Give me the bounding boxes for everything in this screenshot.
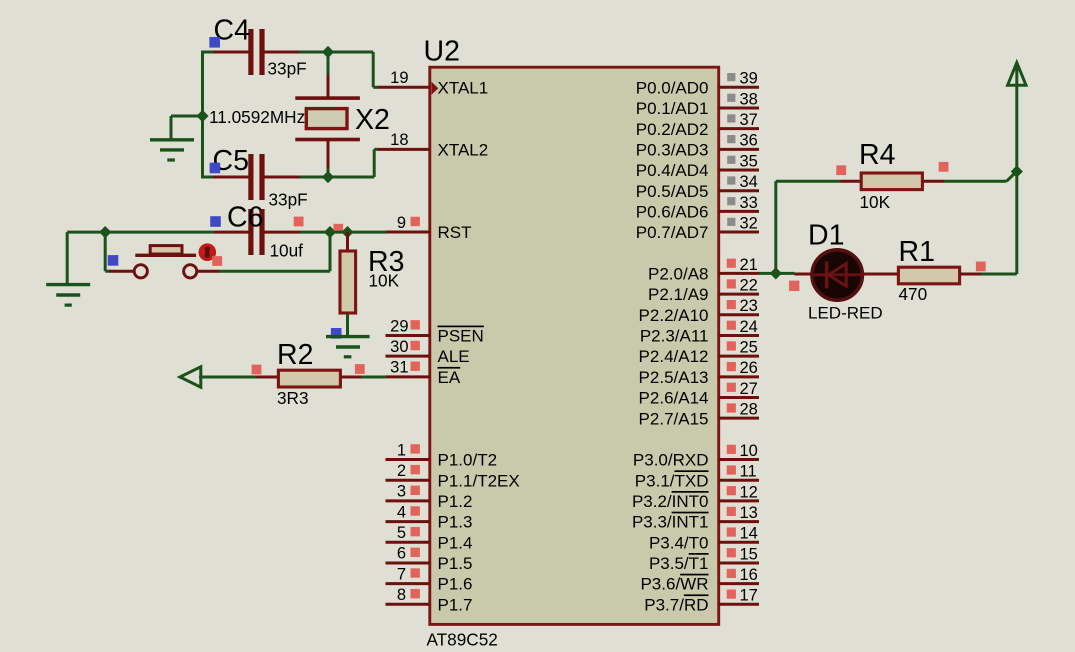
wire C5 to node [300,176,329,179]
svg-text:16: 16 [740,566,758,584]
crystal X2 top plate [295,96,360,100]
svg-text:6: 6 [397,545,406,563]
pin 29 stub [386,334,431,337]
svg-text:P2.5/A13: P2.5/A13 [639,368,709,387]
pin 33 stub [718,210,759,213]
pin 22 stub [718,293,759,296]
blue marker near C4 [209,37,220,48]
wire pin21 to LED node [759,272,776,275]
svg-text:10uf: 10uf [270,241,304,261]
crystal X2 top lead [327,75,330,98]
svg-text:R2: R2 [277,339,313,371]
svg-text:RST: RST [438,223,472,242]
pin 5 stub [386,541,431,544]
svg-text:P2.1/A9: P2.1/A9 [648,285,709,304]
pin 23 stub [718,313,759,316]
pin 4 marker square [411,506,420,515]
pin 38 marker square [727,94,735,102]
svg-text:9: 9 [397,214,406,232]
pin 7 stub [386,582,431,585]
svg-text:P0.7/AD7: P0.7/AD7 [636,223,709,242]
crystal X2 top lead green part [327,56,330,76]
pin 28 marker square [727,403,736,412]
svg-text:P0.4/AD4: P0.4/AD4 [636,161,709,180]
svg-text:P1.4: P1.4 [438,533,473,552]
capacitor C4 lead right [265,51,300,54]
capacitor C5 lead right [265,176,300,179]
svg-text:P3.6/WR: P3.6/WR [640,575,708,594]
svg-text:10K: 10K [860,192,891,212]
pin 12 stub [718,499,759,502]
ground G2 (reset) [46,285,90,306]
push button interactive knob [199,243,217,261]
resistor R3 body [340,251,356,313]
svg-text:LED-RED: LED-RED [808,304,883,323]
pin 1 marker square [411,444,420,453]
wire button branch horizontal [219,270,330,273]
red marker at RST junction [334,224,344,234]
pin 15 marker square [727,548,736,557]
pin 38 stub [718,106,759,109]
LED D1 right lead / wire to R1 [862,273,899,276]
pin 2 stub [386,479,431,482]
LED D1 left lead [795,273,814,276]
pin 3 stub [386,499,431,502]
wire junction to pin9 [348,231,387,234]
power rail vertical [1015,64,1018,274]
svg-text:D1: D1 [808,220,844,252]
svg-text:33pF: 33pF [269,190,308,210]
node at left rail / ground branch [196,110,208,122]
node reset rail left [99,226,111,238]
capacitor C6 lead right [265,231,300,234]
wire vertical up to pin18 [373,149,376,177]
wire ground branch vertical [170,116,173,141]
resistor R3 bottom lead [346,314,349,337]
wire reset-node down to button [104,232,107,271]
svg-text:22: 22 [740,277,758,295]
pin 16 stub [718,582,759,585]
wire C4 row left vertical [201,51,204,179]
svg-text:P3.4/T0: P3.4/T0 [649,533,709,552]
svg-text:X2: X2 [355,104,390,136]
pin 28 stub [718,417,759,420]
pin 24 stub [718,334,759,337]
wire vertical down to pin19 [372,52,375,87]
svg-text:R4: R4 [859,139,896,171]
resistor R1 body [898,267,959,284]
svg-text:8: 8 [397,586,406,604]
pin 21 stub [718,272,759,275]
pin 6 marker square [411,548,420,557]
push button left terminal [134,265,147,278]
svg-text:11: 11 [740,463,757,481]
wire arrow to R2 [199,376,257,379]
pin 9 marker square [411,217,420,226]
red marker on C6 right lead [294,217,304,227]
svg-text:P3.2/INT0: P3.2/INT0 [632,492,709,511]
svg-text:39: 39 [740,70,758,88]
wire C4 row corner to cap [201,51,213,54]
red marker below-left of LED [789,281,799,291]
svg-text:P2.6/A14: P2.6/A14 [639,389,709,408]
svg-text:P1.1/T2EX: P1.1/T2EX [438,471,520,490]
wire into pin18 [374,148,378,151]
pin 17 marker square [727,590,736,599]
svg-text:14: 14 [740,525,758,543]
svg-text:2: 2 [397,462,406,480]
svg-text:3R3: 3R3 [277,388,309,408]
pin 5 marker square [411,527,420,536]
wire R1 to power rail [981,273,1017,276]
svg-text:35: 35 [740,152,758,170]
pin 2 marker square [411,465,420,474]
svg-text:19: 19 [390,69,408,87]
pin 37 stub [718,127,759,130]
svg-text:13: 13 [740,504,758,522]
resistor R2 left lead [257,376,279,379]
wire C4 to node [300,51,329,54]
pin 10 marker square [727,445,736,454]
wire node to LED [776,272,795,275]
node at XTAL1 net top [322,46,334,58]
blue marker near button [108,255,119,266]
svg-text:36: 36 [740,132,758,150]
svg-text:P2.3/A11: P2.3/A11 [640,327,709,346]
svg-text:P1.2: P1.2 [438,492,473,511]
pin 34 stub [718,189,759,192]
svg-text:P1.0/T2: P1.0/T2 [438,451,498,470]
svg-text:10K: 10K [369,271,400,291]
wire node up to R4 row [774,181,777,273]
pin 21 marker square [727,259,736,268]
push button left lead [109,270,134,273]
capacitor C5 plates [248,154,264,200]
svg-text:21: 21 [740,256,758,274]
pin 36 marker square [727,135,735,143]
pin 10 stub [718,458,759,461]
svg-text:P0.5/AD5: P0.5/AD5 [636,182,709,201]
resistor R4 body [861,173,922,190]
node power rail [1011,165,1023,177]
svg-text:11.0592MHz: 11.0592MHz [209,107,305,127]
wire ground branch horizontal [171,115,203,118]
pin 15 stub [718,561,759,564]
node P2.0 net [770,267,782,279]
wire into pin19 [373,86,378,89]
pin 25 stub [718,355,759,358]
svg-text:7: 7 [397,565,406,583]
red marker near button knob [212,256,222,266]
pin 31 stub [386,375,431,378]
svg-text:P0.0/AD0: P0.0/AD0 [636,78,709,97]
resistor R4 right lead [922,180,944,183]
wire node to pin19 corner [328,51,373,54]
pin 4 stub [386,520,431,523]
pin 33 marker square [727,197,735,205]
pin 16 marker square [727,569,736,578]
svg-text:4: 4 [397,503,406,521]
svg-text:XTAL1: XTAL1 [438,78,489,97]
wire RST rail from ground corner [67,231,105,234]
svg-text:10: 10 [740,442,758,460]
svg-text:31: 31 [390,359,408,377]
pin 31 marker square [411,362,420,371]
node at XTAL2 net bottom [322,171,334,183]
push button right lead [198,270,220,273]
pin 37 marker square [727,114,735,122]
wire between junctions [330,231,348,234]
svg-text:12: 12 [740,483,758,501]
svg-text:XTAL2: XTAL2 [438,140,489,159]
blue marker near C5 [210,163,221,174]
svg-text:EA: EA [438,368,461,387]
svg-text:U2: U2 [424,36,460,68]
svg-text:AT89C52: AT89C52 [427,630,498,650]
svg-text:25: 25 [740,339,758,357]
svg-text:17: 17 [740,587,758,605]
red marker right of R4 [939,162,949,172]
svg-text:3: 3 [397,483,406,501]
pin 18 stub (XTAL2) [377,148,430,151]
wire R4 row horizontal [776,180,841,183]
pin 8 marker square [411,589,420,598]
pin 35 stub [718,169,759,172]
blue marker below R3 [331,328,342,339]
pin 25 marker square [727,341,736,350]
resistor R4 left lead [841,180,862,183]
svg-text:33: 33 [740,194,758,212]
svg-text:28: 28 [740,401,758,419]
svg-text:37: 37 [740,111,758,129]
pin 30 marker square [411,341,420,350]
svg-text:P1.7: P1.7 [438,595,473,614]
pin 30 stub [386,355,431,358]
resistor R3 top lead [346,232,349,250]
capacitor C6 plates [248,209,264,255]
node RST/button junction [324,226,336,238]
red marker right of R2 [355,364,365,374]
pin 7 marker square [411,568,420,577]
wire down to ground G2 [66,232,69,285]
wire corner into button left lead [105,270,110,273]
svg-text:P2.4/A12: P2.4/A12 [639,347,709,366]
svg-text:29: 29 [390,317,408,335]
pin 32 stub [718,231,759,234]
svg-text:C6: C6 [227,202,263,234]
capacitor C4 plates [248,29,264,75]
pin 11 stub [718,479,759,482]
pin 13 marker square [727,507,736,516]
svg-text:P2.2/A10: P2.2/A10 [639,306,709,325]
wire C5 row corner [201,176,213,179]
svg-text:P3.5/T1: P3.5/T1 [649,554,709,573]
pin 14 stub [718,541,759,544]
svg-text:38: 38 [740,90,758,108]
svg-text:32: 32 [740,214,758,232]
ground G1 (crystal) [150,140,194,160]
svg-text:R1: R1 [899,236,935,268]
wire R2 to pin31 [361,376,386,379]
wire RST rail to C6 [105,231,214,234]
pin 35 marker square [727,156,735,164]
svg-text:30: 30 [390,338,408,356]
svg-text:P3.0/RXD: P3.0/RXD [633,451,709,470]
wire button branch vertical [329,232,332,271]
svg-text:P1.6: P1.6 [438,575,473,594]
crystal X2 body [306,109,347,129]
svg-text:26: 26 [740,359,758,377]
push button right terminal [184,265,197,278]
capacitor C4 lead left [213,51,249,54]
svg-text:5: 5 [397,524,406,542]
capacitor C5 lead left [213,176,249,179]
resistor R2 right lead [340,376,361,379]
wire C6 to node [300,231,331,234]
pin 23 marker square [727,300,736,309]
svg-text:P2.0/A8: P2.0/A8 [648,265,709,284]
pin 8 stub [386,603,431,606]
node RST/R3 junction [341,226,353,238]
svg-text:23: 23 [740,297,758,315]
wire R4 to power rail (horizontal) [944,180,1007,183]
svg-text:ALE: ALE [438,347,470,366]
push button actuator box [150,246,182,254]
pin 22 marker square [727,279,736,288]
svg-text:P0.2/AD2: P0.2/AD2 [636,120,709,139]
crystal X2 bottom lead green part [327,168,330,177]
pin 14 marker square [727,527,736,536]
resistor R1 right lead [960,273,981,276]
clock input marker on XTAL1 pin [432,82,439,95]
crystal X2 bottom lead [327,141,330,169]
pin 12 marker square [727,486,736,495]
pin 11 marker square [727,465,736,474]
red marker left of R2 [252,365,262,375]
blue marker near C6 [210,216,221,227]
pin 1 stub [386,458,431,461]
IC U2 AT89C52 body [430,67,719,624]
svg-text:PSEN: PSEN [438,327,484,346]
pin 17 stub [718,603,759,606]
pin 9 stub [386,231,431,234]
svg-text:P1.5: P1.5 [438,554,473,573]
resistor R2 body [278,370,340,387]
svg-text:P1.3: P1.3 [438,513,473,532]
pin 24 marker square [727,321,736,330]
svg-text:15: 15 [740,545,758,563]
pin 34 marker square [727,176,735,184]
red marker right of R1 [976,262,986,272]
svg-text:470: 470 [899,284,928,304]
svg-text:P3.7/RD: P3.7/RD [644,595,708,614]
arrow terminal (EA net) [180,367,201,387]
svg-text:18: 18 [390,131,408,149]
svg-text:P3.3/INT1: P3.3/INT1 [632,513,709,532]
svg-text:P3.1/TXD: P3.1/TXD [635,471,709,490]
pin 26 stub [718,375,759,378]
svg-text:24: 24 [740,318,758,336]
red marker left of R4 [836,165,846,175]
crystal X2 bottom plate [295,138,360,142]
pin 3 marker square [411,486,420,495]
svg-text:P0.3/AD3: P0.3/AD3 [636,140,709,159]
svg-text:34: 34 [740,173,758,191]
pin 32 marker square [727,218,735,226]
LED D1 body [812,250,862,300]
pin 36 stub [718,148,759,151]
svg-text:1: 1 [397,441,406,459]
pin 39 stub [718,86,759,89]
wire diagonal into power node [1007,173,1016,182]
pin 27 marker square [727,383,736,392]
pin 26 marker square [727,362,736,371]
pin 29 marker square [411,320,420,329]
svg-text:P0.1/AD1: P0.1/AD1 [636,99,709,118]
pin 27 stub [718,396,759,399]
svg-text:27: 27 [740,380,758,398]
capacitor C6 lead left [214,231,249,234]
svg-text:33pF: 33pF [268,59,307,79]
pin 6 stub [386,561,431,564]
svg-text:P0.6/AD6: P0.6/AD6 [636,202,709,221]
wire node to pin18 corner [328,176,374,179]
pin 13 stub [718,520,759,523]
pin 39 marker square [727,73,735,81]
power arrow symbol [1008,63,1026,86]
pin 19 stub (XTAL1) [377,86,430,89]
push button actuator plate [135,254,196,257]
svg-text:P2.7/A15: P2.7/A15 [639,409,709,428]
ground G3 (below R3) [326,337,370,357]
